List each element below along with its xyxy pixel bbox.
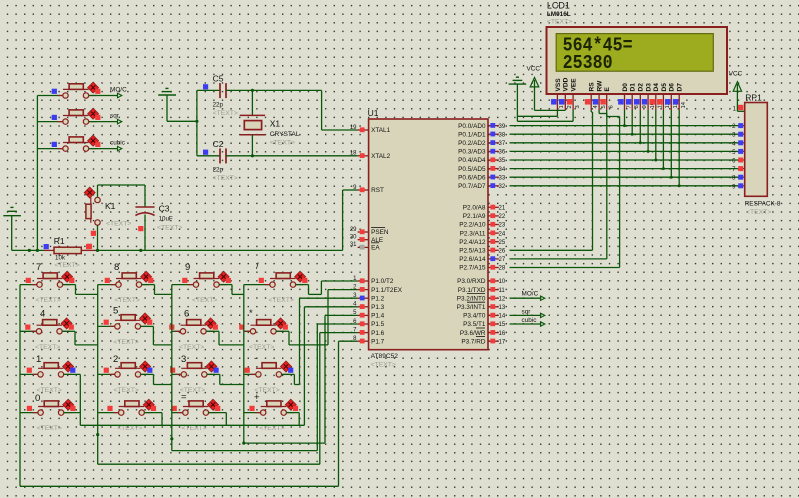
wire jog 8 [142, 285, 172, 295]
svg-text:9: 9 [642, 105, 648, 108]
key label 3 [181, 354, 186, 365]
svg-text:C5: C5 [213, 73, 224, 83]
svg-text:D6: D6 [669, 83, 676, 92]
capacitor C5 [197, 83, 226, 98]
svg-text:RESPACK-8: RESPACK-8 [745, 200, 781, 207]
svg-text:XTAL1: XTAL1 [371, 127, 391, 134]
svg-text:22p: 22p [213, 102, 224, 109]
push-button - (r3c4) [245, 361, 294, 377]
svg-text:13: 13 [499, 305, 506, 311]
svg-text:<TEXT>: <TEXT> [106, 221, 131, 228]
mcu U1 body AT89C52 [369, 119, 488, 350]
pin P3.2 (12) [457, 295, 506, 302]
svg-text:3: 3 [181, 354, 186, 365]
svg-text:LM016L: LM016L [547, 11, 571, 18]
wire riser to P1.3 [304, 307, 357, 426]
svg-text:.: . [118, 394, 121, 405]
svg-text:P0.4/AD4: P0.4/AD4 [458, 157, 486, 164]
pin P3.7 (17) [461, 338, 505, 345]
pin EA (31) [350, 242, 381, 251]
crystal X1 [240, 90, 265, 155]
svg-text:P2.4/A12: P2.4/A12 [459, 239, 486, 246]
push-button K1 (vertical) [84, 187, 100, 249]
wire column bus 4 [242, 285, 245, 445]
svg-text:16: 16 [499, 331, 506, 337]
svg-text:1: 1 [559, 105, 565, 108]
svg-text:-: - [254, 353, 257, 364]
power VCC (RP1) [729, 71, 745, 112]
text placeholder R1 [54, 262, 79, 269]
svg-text:AT89C52: AT89C52 [371, 353, 399, 360]
push-button cubic [52, 135, 101, 151]
capacitor C3 [135, 185, 154, 250]
wire P0.6 to RP1 pin 8 [510, 176, 739, 178]
lcd pin 4 RS [585, 82, 599, 110]
wire riser to P1.7 [339, 341, 358, 486]
svg-text:30: 30 [350, 235, 357, 241]
ground (left, RST network) [3, 207, 21, 250]
rp1 pin 8 [732, 175, 745, 182]
svg-text:38: 38 [499, 132, 506, 138]
text placeholder r4c4 [259, 425, 284, 432]
value 22p C5 [213, 102, 224, 109]
svg-text:<TEXT>: <TEXT> [117, 425, 142, 432]
svg-text:*: * [249, 308, 253, 319]
text placeholder LCD1 [547, 18, 572, 25]
svg-text:6: 6 [609, 105, 615, 108]
wire jog 4 [62, 331, 98, 345]
wire R1 to RST (bottom rail) [96, 249, 343, 252]
svg-text:<TEXT>: <TEXT> [37, 425, 62, 432]
label U1 [368, 108, 379, 118]
text placeholder r2c3 [179, 344, 204, 351]
svg-text:P3.0/RXD: P3.0/RXD [457, 278, 486, 285]
svg-text:2: 2 [567, 105, 573, 108]
svg-text:P0.1/AD1: P0.1/AD1 [458, 131, 486, 138]
svg-text:31: 31 [350, 242, 357, 248]
svg-text:VEE: VEE [571, 78, 578, 92]
wire jog equals [209, 413, 227, 426]
text placeholder r4c2 [117, 425, 142, 432]
key label 4 [40, 309, 45, 320]
resistor R1 [44, 244, 96, 254]
svg-text:10k: 10k [55, 255, 66, 262]
rp1 pin 9 [732, 183, 745, 190]
wire bus to key 3 r3c3 [172, 373, 181, 375]
pin P2.1 (22) [463, 213, 506, 220]
wire D3 to P0.3 [647, 110, 650, 153]
text placeholder X1 [270, 139, 295, 146]
wire bottom rail y486 [20, 485, 339, 487]
wire bus to key = r4c3 [172, 412, 183, 414]
svg-text:P1.6: P1.6 [371, 330, 385, 337]
pin P0.4 (35) [458, 157, 506, 164]
svg-text:P2.6/A14: P2.6/A14 [459, 256, 486, 263]
svg-text:R1: R1 [54, 236, 65, 246]
text placeholder C5 [213, 110, 238, 117]
wire stub to key sqr [37, 121, 63, 123]
key label / [256, 261, 259, 272]
pin P2.4 (25) [459, 239, 506, 246]
value RESPACK-8 [745, 200, 781, 207]
svg-text:22: 22 [499, 214, 506, 220]
pin P1.3 (4) [353, 302, 385, 311]
push-button 3 (r3c3) [170, 361, 219, 377]
pin P1.4 (5) [353, 310, 385, 319]
pin P2.2 (23) [459, 222, 506, 229]
rp1 pin 4 [732, 140, 745, 147]
wire bus to key 6 r2c3 [172, 330, 181, 332]
ground (crystal) [158, 88, 197, 121]
wire C5-C2 left junction [195, 90, 198, 155]
rp1 pin 2 [732, 123, 745, 130]
wire RW to P2.6 [510, 110, 607, 259]
value 22p C2 [213, 167, 224, 174]
wire left bus of function keys [36, 96, 38, 251]
wire E to P2.7 [510, 110, 620, 268]
lcd LCD1 body [547, 27, 728, 94]
key label . [118, 394, 121, 405]
pin P1.6 (7) [353, 327, 385, 336]
wire stub to key MO/C [37, 95, 63, 97]
wire jog * to P1.1 riser [276, 331, 328, 345]
text placeholder RP1 [746, 209, 771, 216]
pin P3.6 (16) [460, 330, 506, 337]
svg-text:VCC: VCC [527, 65, 541, 72]
pin XTAL2 (18) [350, 151, 391, 160]
wire D2 to P0.2 [639, 110, 642, 144]
svg-text:D0: D0 [622, 83, 629, 92]
terminal arrow MO/C [89, 86, 127, 97]
wire VSS to ground [517, 110, 557, 116]
svg-text:<TEXT>: <TEXT> [270, 139, 295, 146]
svg-text:2: 2 [113, 354, 118, 365]
wire C5 to XTAL1 [226, 89, 358, 130]
svg-text:<TEXT>: <TEXT> [249, 344, 274, 351]
svg-text:U1: U1 [368, 108, 379, 118]
svg-text:/: / [256, 261, 259, 272]
pin P2.3 (24) [460, 230, 506, 237]
wire riser to P1.2 [300, 298, 358, 384]
svg-text:P2.0/A8: P2.0/A8 [463, 205, 486, 212]
pin P3.1 (11) [458, 287, 506, 294]
svg-text:P1.0/T2: P1.0/T2 [371, 278, 394, 285]
svg-text:P3.6/WR: P3.6/WR [460, 330, 486, 337]
svg-text:P0.7/AD7: P0.7/AD7 [458, 183, 486, 190]
wire jog 2 [141, 374, 172, 384]
text placeholder r1c3 [192, 297, 217, 304]
terminal arrow sqr at P3 [510, 309, 545, 318]
svg-text:P1.4: P1.4 [371, 313, 385, 320]
key label * [249, 308, 253, 319]
wire stub to key cubic [37, 148, 63, 150]
label C3 [159, 204, 170, 214]
pin P2.6 (27) [459, 256, 506, 263]
svg-text:P3.3/INT1: P3.3/INT1 [457, 304, 486, 311]
key label 1 [36, 354, 41, 365]
push-button 2 (r3c2) [104, 361, 153, 377]
svg-text:25380: 25380 [563, 52, 613, 74]
push-button 7 (r1c1) [26, 271, 75, 287]
svg-text:29: 29 [350, 227, 357, 233]
text placeholder r1c1 [36, 297, 61, 304]
key label + [254, 392, 260, 403]
svg-text:<TEXT>: <TEXT> [157, 225, 182, 232]
svg-text:<TEXT>: <TEXT> [113, 339, 138, 346]
svg-text:K1: K1 [105, 201, 116, 211]
svg-text:9: 9 [185, 262, 190, 273]
wire bus to key 7 r1c1 [20, 284, 37, 286]
pin P2.5 (26) [459, 248, 506, 255]
lcd pin 6 E [600, 87, 614, 111]
label RP1 [745, 93, 762, 103]
svg-text:15: 15 [499, 322, 506, 328]
svg-text:P2.2/A10: P2.2/A10 [459, 222, 486, 229]
wire column bus 2 [96, 285, 99, 465]
svg-text:VDD: VDD [563, 77, 570, 91]
pin P2.7 (28) [459, 265, 506, 272]
wire ground to R1 [12, 249, 44, 252]
rp1 pin 6 [732, 158, 745, 165]
svg-text:MO/C: MO/C [110, 86, 127, 93]
svg-text:P2.7/A15: P2.7/A15 [459, 265, 486, 272]
text placeholder r3c4 [254, 387, 279, 394]
svg-text:D7: D7 [677, 83, 684, 92]
wire D4 to P0.4 [654, 110, 657, 162]
pin P3.5 (15) [463, 321, 506, 328]
wire bus to key 9 r1c3 [172, 284, 194, 286]
svg-text:<TEXT>: <TEXT> [746, 209, 771, 216]
pin P1.2 (3) [353, 293, 385, 302]
text placeholder U1 [371, 362, 396, 369]
wire riser to P1.4 [325, 315, 358, 443]
svg-text:7: 7 [626, 105, 632, 108]
push-button 5 (r2c2) [104, 313, 153, 329]
svg-text:<TEXT>: <TEXT> [37, 387, 62, 394]
push-button MO/C [52, 82, 101, 98]
svg-text:=: = [181, 392, 187, 403]
text placeholder r1c2 [115, 297, 140, 304]
svg-text:28: 28 [499, 266, 506, 272]
svg-text:25: 25 [499, 240, 506, 246]
overline INT1 [467, 301, 485, 303]
wire D6 to P0.6 [670, 110, 673, 179]
svg-text:D4: D4 [653, 83, 660, 92]
wire D0 to P0.0 [623, 110, 626, 127]
svg-text:8: 8 [634, 105, 640, 108]
wire jog dot [144, 413, 162, 426]
svg-text:14: 14 [681, 101, 687, 108]
svg-text:1: 1 [36, 354, 41, 365]
key label = [181, 392, 187, 403]
wire K1 top [98, 185, 146, 197]
terminal arrow cubic at P3 [510, 317, 545, 326]
lcd pin 9 D2 [634, 83, 648, 110]
key label 2 [113, 354, 118, 365]
svg-text:P3.4/T0: P3.4/T0 [463, 313, 486, 320]
wire D1 to P0.1 [631, 110, 634, 136]
svg-text:5: 5 [113, 306, 118, 317]
svg-text:CRYSTAL: CRYSTAL [270, 131, 300, 138]
wire P0.0 to RP1 pin 2 [510, 125, 739, 127]
push-button 0 (r4c1) [27, 399, 76, 415]
wire jog 0 [64, 412, 81, 414]
svg-text:<TEXT>: <TEXT> [181, 425, 206, 432]
svg-text:26: 26 [499, 249, 506, 255]
lcd pin 5 RW [593, 80, 607, 110]
wire bus to key 8 r1c2 [98, 284, 116, 286]
svg-text:39: 39 [499, 124, 506, 130]
svg-text:P0.5/AD5: P0.5/AD5 [458, 166, 486, 173]
value 10uF [159, 215, 173, 222]
push-button 1 (r3c1) [27, 361, 76, 377]
lcd pin 2 VDD [559, 77, 573, 110]
svg-text:RST: RST [371, 187, 384, 194]
key label 9 [185, 262, 190, 273]
pin P1.7 (8) [353, 336, 385, 345]
svg-text:<TEXT>: <TEXT> [213, 175, 238, 182]
pin P1.5 (6) [353, 319, 385, 328]
wire bottom rail y443 [244, 442, 325, 444]
overline RD [476, 336, 485, 338]
svg-text:7: 7 [36, 262, 41, 273]
svg-text:P3.2/INT0: P3.2/INT0 [457, 295, 486, 302]
svg-text:<TEXT>: <TEXT> [259, 425, 284, 432]
wire jog minus to P1.2 riser [282, 374, 300, 384]
label R1 [54, 236, 65, 246]
push-button + (r4c4) [249, 399, 298, 415]
svg-text:cubic: cubic [522, 317, 538, 324]
key label 8 [114, 262, 119, 273]
wire bottom rail y464 [98, 463, 320, 465]
svg-text:P2.3/A11: P2.3/A11 [460, 230, 486, 237]
wire RST rail up to pin 9 [343, 190, 358, 250]
lcd pin 8 D1 [626, 83, 640, 110]
svg-text:C2: C2 [213, 139, 224, 149]
svg-text:D1: D1 [630, 83, 637, 92]
svg-text:cubic: cubic [110, 139, 126, 146]
wire bus to key + r4c4 [244, 412, 261, 414]
pin P2.0 (21) [463, 205, 506, 212]
label C2 [213, 139, 224, 149]
svg-text:10uF: 10uF [159, 215, 173, 222]
svg-text:RS: RS [589, 82, 596, 92]
wire P0.7 to RP1 pin 9 [510, 185, 739, 187]
wire P0.4 to RP1 pin 6 [510, 159, 739, 161]
svg-text:sqr: sqr [522, 309, 532, 316]
svg-text:21: 21 [499, 206, 506, 212]
svg-text:11: 11 [499, 288, 506, 294]
wire jog 7 [63, 285, 98, 295]
wire bus to key * r2c4 [244, 330, 251, 332]
svg-text:P3.5/T1: P3.5/T1 [463, 321, 486, 328]
svg-text:D2: D2 [638, 83, 645, 92]
value CRYSTAL [270, 131, 300, 138]
svg-text:PSEN: PSEN [371, 229, 389, 236]
svg-text:19: 19 [350, 125, 357, 131]
svg-text:23: 23 [499, 223, 506, 229]
text placeholder r3c1 [37, 387, 62, 394]
svg-text:4: 4 [40, 309, 45, 320]
wire riser to P1.1 [328, 290, 358, 345]
svg-text:E: E [604, 87, 611, 92]
lcd pin 3 VEE [567, 78, 581, 110]
key label - [254, 353, 257, 364]
push-button 6 (r2c3) [169, 318, 218, 334]
push-button . (r4c2) [107, 399, 156, 415]
svg-text:27: 27 [499, 257, 506, 263]
terminal arrow MO/C at P3 [510, 291, 545, 301]
label K1 [105, 201, 116, 211]
wire P0.1 to RP1 pin 3 [510, 133, 739, 135]
svg-text:<TEXT>: <TEXT> [115, 297, 140, 304]
svg-text:36: 36 [499, 150, 506, 156]
push-button / (r1c4) [259, 271, 308, 287]
lcd text line 1 [563, 35, 633, 57]
wire K1 bottom [97, 225, 99, 250]
overline WR [476, 327, 485, 329]
power VCC (LCD) [527, 65, 541, 110]
wire D7 to P0.7 [678, 110, 681, 187]
text placeholder r3c2 [114, 387, 139, 394]
svg-text:35: 35 [499, 158, 506, 164]
svg-text:10: 10 [499, 279, 506, 285]
text placeholder r1c4 [269, 297, 294, 304]
push-button 8 (r1c2) [105, 271, 154, 287]
svg-text:sqr: sqr [110, 112, 120, 119]
wire jog 6 [206, 331, 244, 345]
pin PSEN (29) [350, 227, 389, 236]
svg-text:34: 34 [499, 167, 506, 173]
svg-text:3: 3 [575, 105, 581, 108]
pin ALE (30) [350, 235, 383, 244]
pin P3.0 (10) [457, 278, 506, 285]
svg-text:14: 14 [499, 314, 506, 320]
svg-text:5: 5 [601, 105, 607, 108]
wire jog chain col1 rows3-4 [79, 374, 81, 425]
wire jog plus [286, 413, 299, 426]
text placeholder C3 [157, 225, 182, 232]
key label 6 [184, 309, 189, 320]
pin RST (9) [353, 185, 384, 194]
capacitor C2 [197, 148, 226, 163]
wire RS to P2.5 [510, 110, 593, 250]
svg-text:EA: EA [371, 245, 380, 252]
svg-text:P0.3/AD3: P0.3/AD3 [458, 149, 486, 156]
key label 5 [113, 306, 118, 317]
wire C2 to XTAL2 [226, 154, 358, 157]
svg-text:VCC: VCC [729, 71, 743, 78]
wire column bus 1 [19, 285, 21, 487]
pin P3.4 (14) [463, 313, 506, 320]
svg-text:P1.2: P1.2 [371, 295, 385, 302]
svg-text:<TEXT>: <TEXT> [179, 344, 204, 351]
svg-text:P1.1/T2EX: P1.1/T2EX [371, 287, 403, 294]
wire bus to key / r1c4 [244, 284, 270, 286]
pin P0.1 (38) [458, 131, 506, 138]
value AT89C52 [371, 353, 399, 360]
text placeholder r2c2 [113, 339, 138, 346]
wire bus to key 0 r4c1 [20, 412, 38, 414]
value LM016L [547, 11, 571, 18]
lcd pin 11 D4 [649, 83, 663, 110]
svg-text:P1.7: P1.7 [371, 338, 385, 345]
wire bus to key 4 r2c1 [20, 330, 36, 332]
overline INT0 [467, 293, 485, 295]
wire bus to key 2 r3c2 [98, 373, 115, 375]
lcd pin 10 D3 [642, 83, 656, 110]
svg-text:<TEXT>: <TEXT> [35, 344, 60, 351]
